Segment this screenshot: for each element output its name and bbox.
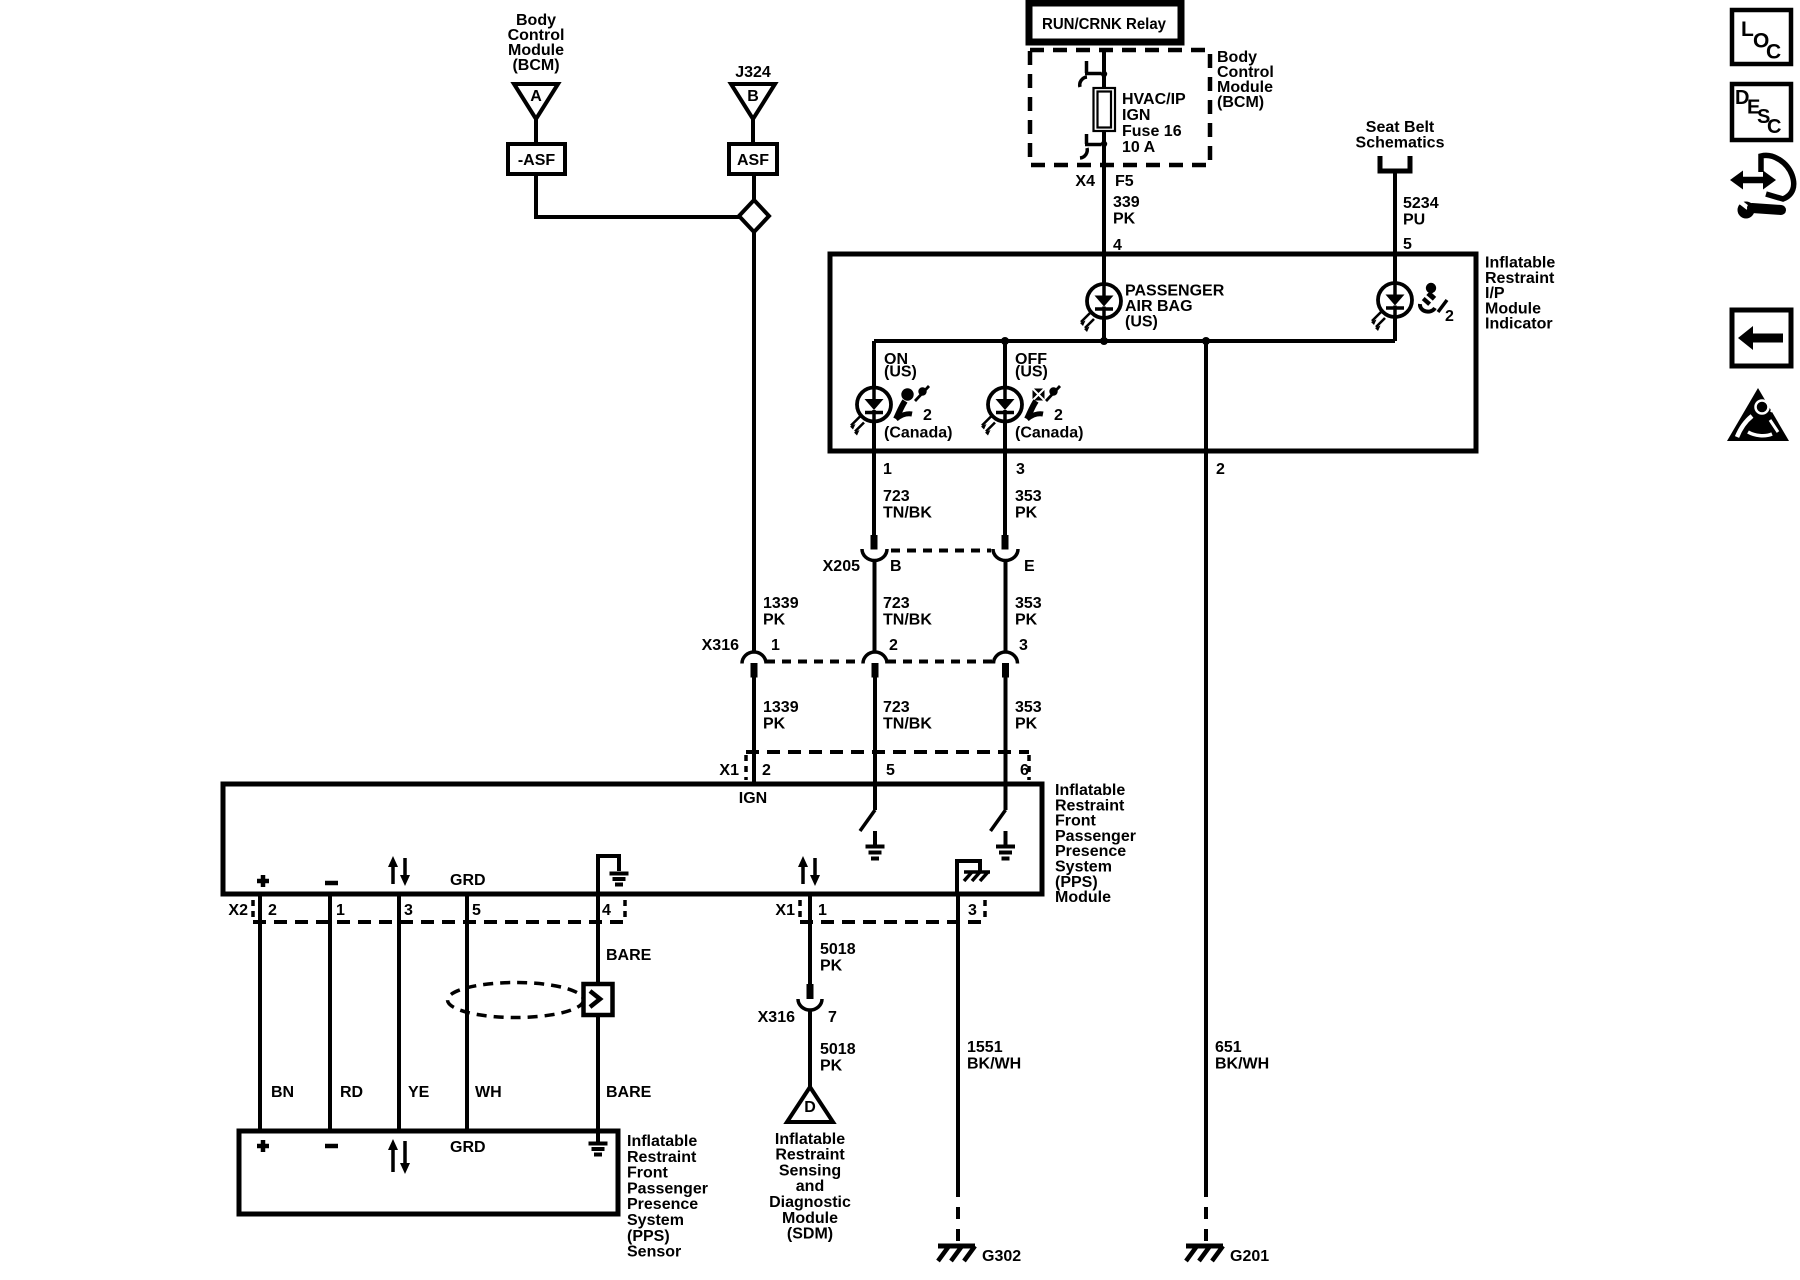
label 353 PK	[1015, 595, 1042, 629]
svg-text:(Canada): (Canada)	[884, 425, 952, 442]
dashed wire to G201	[1204, 1185, 1208, 1244]
label box -ASF	[508, 144, 565, 174]
connector X316-2	[863, 652, 887, 678]
svg-text:Module: Module	[1055, 889, 1111, 906]
wire into fuse	[1102, 50, 1106, 88]
svg-text:WH: WH	[475, 1084, 502, 1101]
wire A to -ASF	[534, 119, 538, 144]
svg-text:1: 1	[336, 902, 345, 919]
label 723 TN/BK	[883, 699, 932, 733]
svg-text:Passenger: Passenger	[627, 1180, 708, 1197]
svg-text:339: 339	[1113, 194, 1140, 211]
terminal +	[257, 1140, 269, 1152]
svg-text:2: 2	[923, 407, 932, 424]
dashed tick left X1	[744, 755, 748, 780]
wire 5018 PK upper	[808, 894, 812, 984]
svg-text:X316: X316	[758, 1009, 795, 1026]
icon back arrow box	[1732, 310, 1791, 366]
switch pin6 to ground	[991, 784, 1016, 859]
inner bus line of indicator box	[874, 339, 1395, 343]
dashed tick X1 right	[983, 900, 987, 921]
terminal ground (BARE)	[589, 1131, 608, 1155]
svg-text:(PPS): (PPS)	[627, 1228, 670, 1245]
svg-text:4: 4	[602, 902, 611, 919]
svg-text:and: and	[796, 1178, 824, 1195]
dashed connector line X2	[253, 920, 625, 924]
svg-text:Inflatable: Inflatable	[627, 1133, 697, 1150]
dashed connector link X316 1-2	[766, 660, 863, 664]
label 651 BK/WH	[1215, 1039, 1269, 1073]
label 1339 PK	[763, 595, 799, 629]
svg-text:353: 353	[1015, 488, 1042, 505]
svg-text:(US): (US)	[1015, 364, 1048, 381]
terminal -	[325, 881, 338, 886]
wire RD	[328, 894, 332, 1131]
wire 5234 PU	[1393, 173, 1397, 254]
svg-text:2: 2	[889, 637, 898, 654]
svg-text:PK: PK	[1113, 211, 1136, 228]
fuse top terminal clip	[1080, 61, 1107, 87]
LED seat belt indicator	[1371, 283, 1412, 331]
svg-text:1: 1	[818, 902, 827, 919]
svg-text:3: 3	[1016, 461, 1025, 478]
svg-text:PK: PK	[1015, 716, 1038, 733]
dashed tick right X1	[1027, 755, 1031, 780]
svg-text:Restraint: Restraint	[775, 1147, 845, 1164]
connector X316-7	[798, 984, 822, 1010]
switch pin5 to ground	[860, 784, 885, 859]
box I/P module indicator	[830, 254, 1476, 451]
terminal +	[257, 875, 269, 887]
LED ON indicator	[850, 388, 891, 436]
fuse HVAC/IP IGN Fuse 16 10 A	[1094, 88, 1116, 131]
svg-text:4: 4	[1113, 237, 1122, 254]
svg-text:IGN: IGN	[1122, 107, 1150, 124]
svg-text:3: 3	[404, 902, 413, 919]
svg-text:Module: Module	[782, 1210, 838, 1227]
wire YE	[397, 894, 401, 1131]
dashed wire to G302	[956, 1185, 960, 1244]
fuse bottom terminal clip	[1080, 134, 1107, 158]
svg-text:F5: F5	[1115, 173, 1134, 190]
dashed connector line X1	[746, 750, 1029, 754]
terminal up/down arrows	[388, 856, 410, 886]
label 1339 PK	[763, 699, 799, 733]
svg-text:ASF: ASF	[737, 152, 769, 169]
svg-text:3: 3	[1019, 637, 1028, 654]
svg-text:D: D	[804, 1099, 816, 1116]
connector X205-E	[993, 535, 1018, 561]
svg-text:PK: PK	[1015, 505, 1038, 522]
svg-text:Front: Front	[627, 1165, 669, 1182]
wire 353 PK lower	[1004, 678, 1008, 785]
svg-text:C: C	[1767, 116, 1781, 138]
label ON (US)	[884, 351, 917, 381]
svg-text:(US): (US)	[884, 364, 917, 381]
svg-text:BARE: BARE	[606, 1084, 652, 1101]
svg-text:AIR BAG: AIR BAG	[1125, 298, 1193, 315]
label 1551 BK/WH	[967, 1039, 1021, 1073]
wire BN	[258, 894, 262, 1131]
svg-text:2: 2	[1054, 407, 1063, 424]
dashed connector link X205	[891, 549, 991, 553]
connector X316-1	[742, 652, 766, 678]
svg-text:PK: PK	[763, 612, 786, 629]
svg-text:723: 723	[883, 595, 910, 612]
svg-text:10 A: 10 A	[1122, 139, 1156, 156]
svg-text:(BCM): (BCM)	[512, 57, 559, 74]
svg-text:Schematics: Schematics	[1356, 135, 1445, 152]
svg-text:PK: PK	[763, 716, 786, 733]
wire 2 inside box	[1204, 341, 1208, 451]
svg-text:5234: 5234	[1403, 195, 1439, 212]
svg-text:Sensing: Sensing	[779, 1162, 841, 1179]
wire 723 TN/BK lower	[873, 678, 877, 785]
svg-text:Diagnostic: Diagnostic	[769, 1194, 851, 1211]
svg-text:X1: X1	[719, 762, 739, 779]
svg-text:TN/BK: TN/BK	[883, 505, 932, 522]
svg-text:2: 2	[762, 762, 771, 779]
splice diamond	[739, 200, 769, 232]
off-page bracket	[1380, 156, 1410, 171]
sub-box left edge / wire ON LED	[872, 341, 876, 451]
wire fuse to BCM edge	[1102, 131, 1106, 165]
box PPS sensor	[239, 1131, 618, 1214]
wire 651 BK/WH	[1204, 451, 1208, 1185]
wire WH	[465, 894, 469, 1131]
svg-text:PK: PK	[820, 958, 843, 975]
connector X316-3	[994, 652, 1018, 678]
svg-text:723: 723	[883, 699, 910, 716]
svg-text:System: System	[627, 1212, 684, 1229]
connector triangle D	[787, 1087, 833, 1122]
svg-text:(US): (US)	[1125, 314, 1158, 331]
label 5018 PK	[820, 1041, 856, 1075]
icon airbag person ON with 2	[896, 386, 932, 424]
svg-text:BK/WH: BK/WH	[1215, 1056, 1269, 1073]
svg-text:Sensor: Sensor	[627, 1244, 681, 1261]
icon DESC box	[1732, 84, 1791, 140]
label Inflatable Restraint Front Passenger Presence System (PPS) Module	[1055, 782, 1136, 906]
svg-text:X316: X316	[702, 637, 739, 654]
label Seat Belt Schematics	[1356, 119, 1445, 152]
svg-text:X4: X4	[1075, 173, 1095, 190]
icon airbag person OFF (crossed) with 2	[1027, 386, 1063, 424]
connector X205-B	[862, 535, 887, 561]
label 723 TN/BK	[883, 595, 932, 629]
wire 723 TN/BK middle	[873, 561, 877, 653]
svg-text:G302: G302	[982, 1248, 1021, 1265]
shield loop dashed ellipse	[448, 983, 584, 1018]
label 353 PK	[1015, 699, 1042, 733]
label 723 TN/BK	[883, 488, 932, 522]
label OFF (US)	[1015, 351, 1048, 381]
svg-text:353: 353	[1015, 595, 1042, 612]
svg-text:B: B	[890, 558, 902, 575]
svg-text:X205: X205	[823, 558, 860, 575]
label Inflatable Restraint I/P Module Indicator	[1485, 255, 1555, 333]
connector triangle B	[731, 84, 775, 119]
wire 1339 PK diamond to X316-1	[752, 232, 756, 652]
wire pin5 inside box	[1393, 254, 1397, 341]
label 5018 PK	[820, 941, 856, 975]
icon airbag warning triangle	[1727, 388, 1789, 441]
svg-text:PK: PK	[820, 1058, 843, 1075]
wire 353 PK upper	[1003, 451, 1007, 536]
svg-text:Indicator: Indicator	[1485, 316, 1553, 333]
label Body Control Module (BCM)	[508, 12, 565, 74]
terminal ground with hook (pin 4)	[598, 856, 629, 894]
svg-text:YE: YE	[408, 1084, 430, 1101]
terminal chassis ground hook (X1 pin 3)	[957, 861, 990, 894]
wire from -ASF down and right to diamond	[536, 174, 739, 217]
icon wiring repair (arrows and wrench)	[1730, 155, 1794, 218]
svg-text:A: A	[530, 88, 542, 105]
svg-text:BARE: BARE	[606, 947, 652, 964]
svg-text:Restraint: Restraint	[627, 1149, 697, 1166]
dashed box Body Control Module (BCM)	[1030, 50, 1210, 165]
icon LOC box	[1732, 10, 1791, 64]
box PPS module	[223, 784, 1042, 894]
terminal -	[325, 1144, 338, 1149]
svg-text:PU: PU	[1403, 212, 1425, 229]
wire B to ASF	[751, 119, 755, 144]
svg-text:5018: 5018	[820, 1041, 856, 1058]
svg-text:X2: X2	[228, 902, 248, 919]
label box RUN/CRNK Relay	[1029, 3, 1181, 42]
label 5234 PU	[1403, 195, 1439, 229]
label 353 PK	[1015, 488, 1042, 522]
svg-text:1339: 1339	[763, 699, 799, 716]
wire 1551 BK/WH	[956, 894, 960, 1185]
svg-text:B: B	[747, 88, 759, 105]
shield termination square	[584, 984, 613, 1015]
svg-text:IGN: IGN	[739, 790, 767, 807]
svg-text:5: 5	[1403, 236, 1412, 253]
dashed tick X2 left	[251, 900, 255, 921]
node junction at wire 3	[1001, 337, 1009, 345]
svg-text:1: 1	[883, 461, 892, 478]
terminal up/down arrows	[388, 1139, 410, 1174]
svg-text:723: 723	[883, 488, 910, 505]
svg-text:2: 2	[1445, 308, 1454, 325]
node junction at wire 2	[1202, 337, 1210, 345]
wire 339 PK	[1102, 165, 1106, 254]
ground G201	[1186, 1246, 1223, 1261]
label Body Control Module (BCM)	[1217, 49, 1274, 111]
fuse value label	[1122, 91, 1186, 156]
svg-text:2: 2	[268, 902, 277, 919]
svg-text:PK: PK	[1015, 612, 1038, 629]
svg-text:RD: RD	[340, 1084, 363, 1101]
dashed connector line X1	[800, 920, 985, 924]
LED OFF indicator	[981, 388, 1022, 436]
wire OFF LED	[1003, 341, 1007, 451]
dashed tick X1 left	[798, 900, 802, 921]
LED passenger air bag (US)	[1080, 284, 1121, 332]
svg-text:6: 6	[1020, 762, 1029, 779]
svg-text:7: 7	[828, 1009, 837, 1026]
wire ASF to diamond	[752, 174, 756, 201]
svg-text:5: 5	[472, 902, 481, 919]
label Inflatable Restraint Front Passenger Presence System (PPS) Sensor	[627, 1133, 708, 1261]
wire 353 PK middle	[1004, 561, 1008, 653]
connector triangle A	[514, 84, 558, 119]
svg-text:RUN/CRNK Relay: RUN/CRNK Relay	[1042, 16, 1166, 33]
svg-text:TN/BK: TN/BK	[883, 612, 932, 629]
label Inflatable Restraint Sensing and Diagnostic Module (SDM)	[769, 1131, 851, 1243]
wire pin4 inside box	[1102, 254, 1106, 341]
svg-text:5018: 5018	[820, 941, 856, 958]
svg-text:Inflatable: Inflatable	[775, 1131, 845, 1148]
svg-text:-ASF: -ASF	[518, 152, 556, 169]
svg-text:Presence: Presence	[627, 1196, 698, 1213]
svg-text:GRD: GRD	[450, 872, 486, 889]
svg-text:1: 1	[771, 637, 780, 654]
wire 723 TN/BK upper	[872, 451, 876, 536]
svg-text:651: 651	[1215, 1039, 1242, 1056]
svg-text:5: 5	[886, 762, 895, 779]
svg-text:BN: BN	[271, 1084, 294, 1101]
svg-text:(Canada): (Canada)	[1015, 425, 1083, 442]
svg-text:TN/BK: TN/BK	[883, 716, 932, 733]
terminal up/down arrows (X1 pin 1)	[798, 856, 820, 886]
ground G302	[938, 1246, 975, 1261]
svg-text:2: 2	[1216, 461, 1225, 478]
label PASSENGER AIR BAG (US)	[1125, 283, 1225, 331]
wire 5018 PK lower	[808, 1010, 812, 1087]
svg-text:PASSENGER: PASSENGER	[1125, 283, 1225, 300]
svg-text:G201: G201	[1230, 1248, 1269, 1265]
svg-text:GRD: GRD	[450, 1139, 486, 1156]
label 339 PK	[1113, 194, 1140, 228]
svg-text:1339: 1339	[763, 595, 799, 612]
label box ASF	[729, 144, 777, 174]
svg-text:353: 353	[1015, 699, 1042, 716]
svg-text:C: C	[1766, 41, 1781, 64]
wire BARE	[596, 894, 600, 1131]
svg-text:1551: 1551	[967, 1039, 1003, 1056]
icon seat belt with 2	[1420, 283, 1454, 325]
svg-text:BK/WH: BK/WH	[967, 1056, 1021, 1073]
node junction at wire 4	[1100, 337, 1108, 345]
svg-text:(BCM): (BCM)	[1217, 94, 1264, 111]
svg-text:(SDM): (SDM)	[787, 1226, 833, 1243]
svg-text:E: E	[1024, 558, 1035, 575]
dashed connector link X316 2-3	[887, 660, 994, 664]
svg-text:X1: X1	[775, 902, 795, 919]
dashed tick X2 right	[623, 900, 627, 921]
svg-text:Seat Belt: Seat Belt	[1366, 119, 1435, 136]
svg-text:HVAC/IP: HVAC/IP	[1122, 91, 1186, 108]
svg-text:Fuse 16: Fuse 16	[1122, 123, 1182, 140]
svg-text:3: 3	[968, 902, 977, 919]
svg-text:J324: J324	[735, 64, 771, 81]
wire 1339 PK lower	[752, 678, 756, 785]
